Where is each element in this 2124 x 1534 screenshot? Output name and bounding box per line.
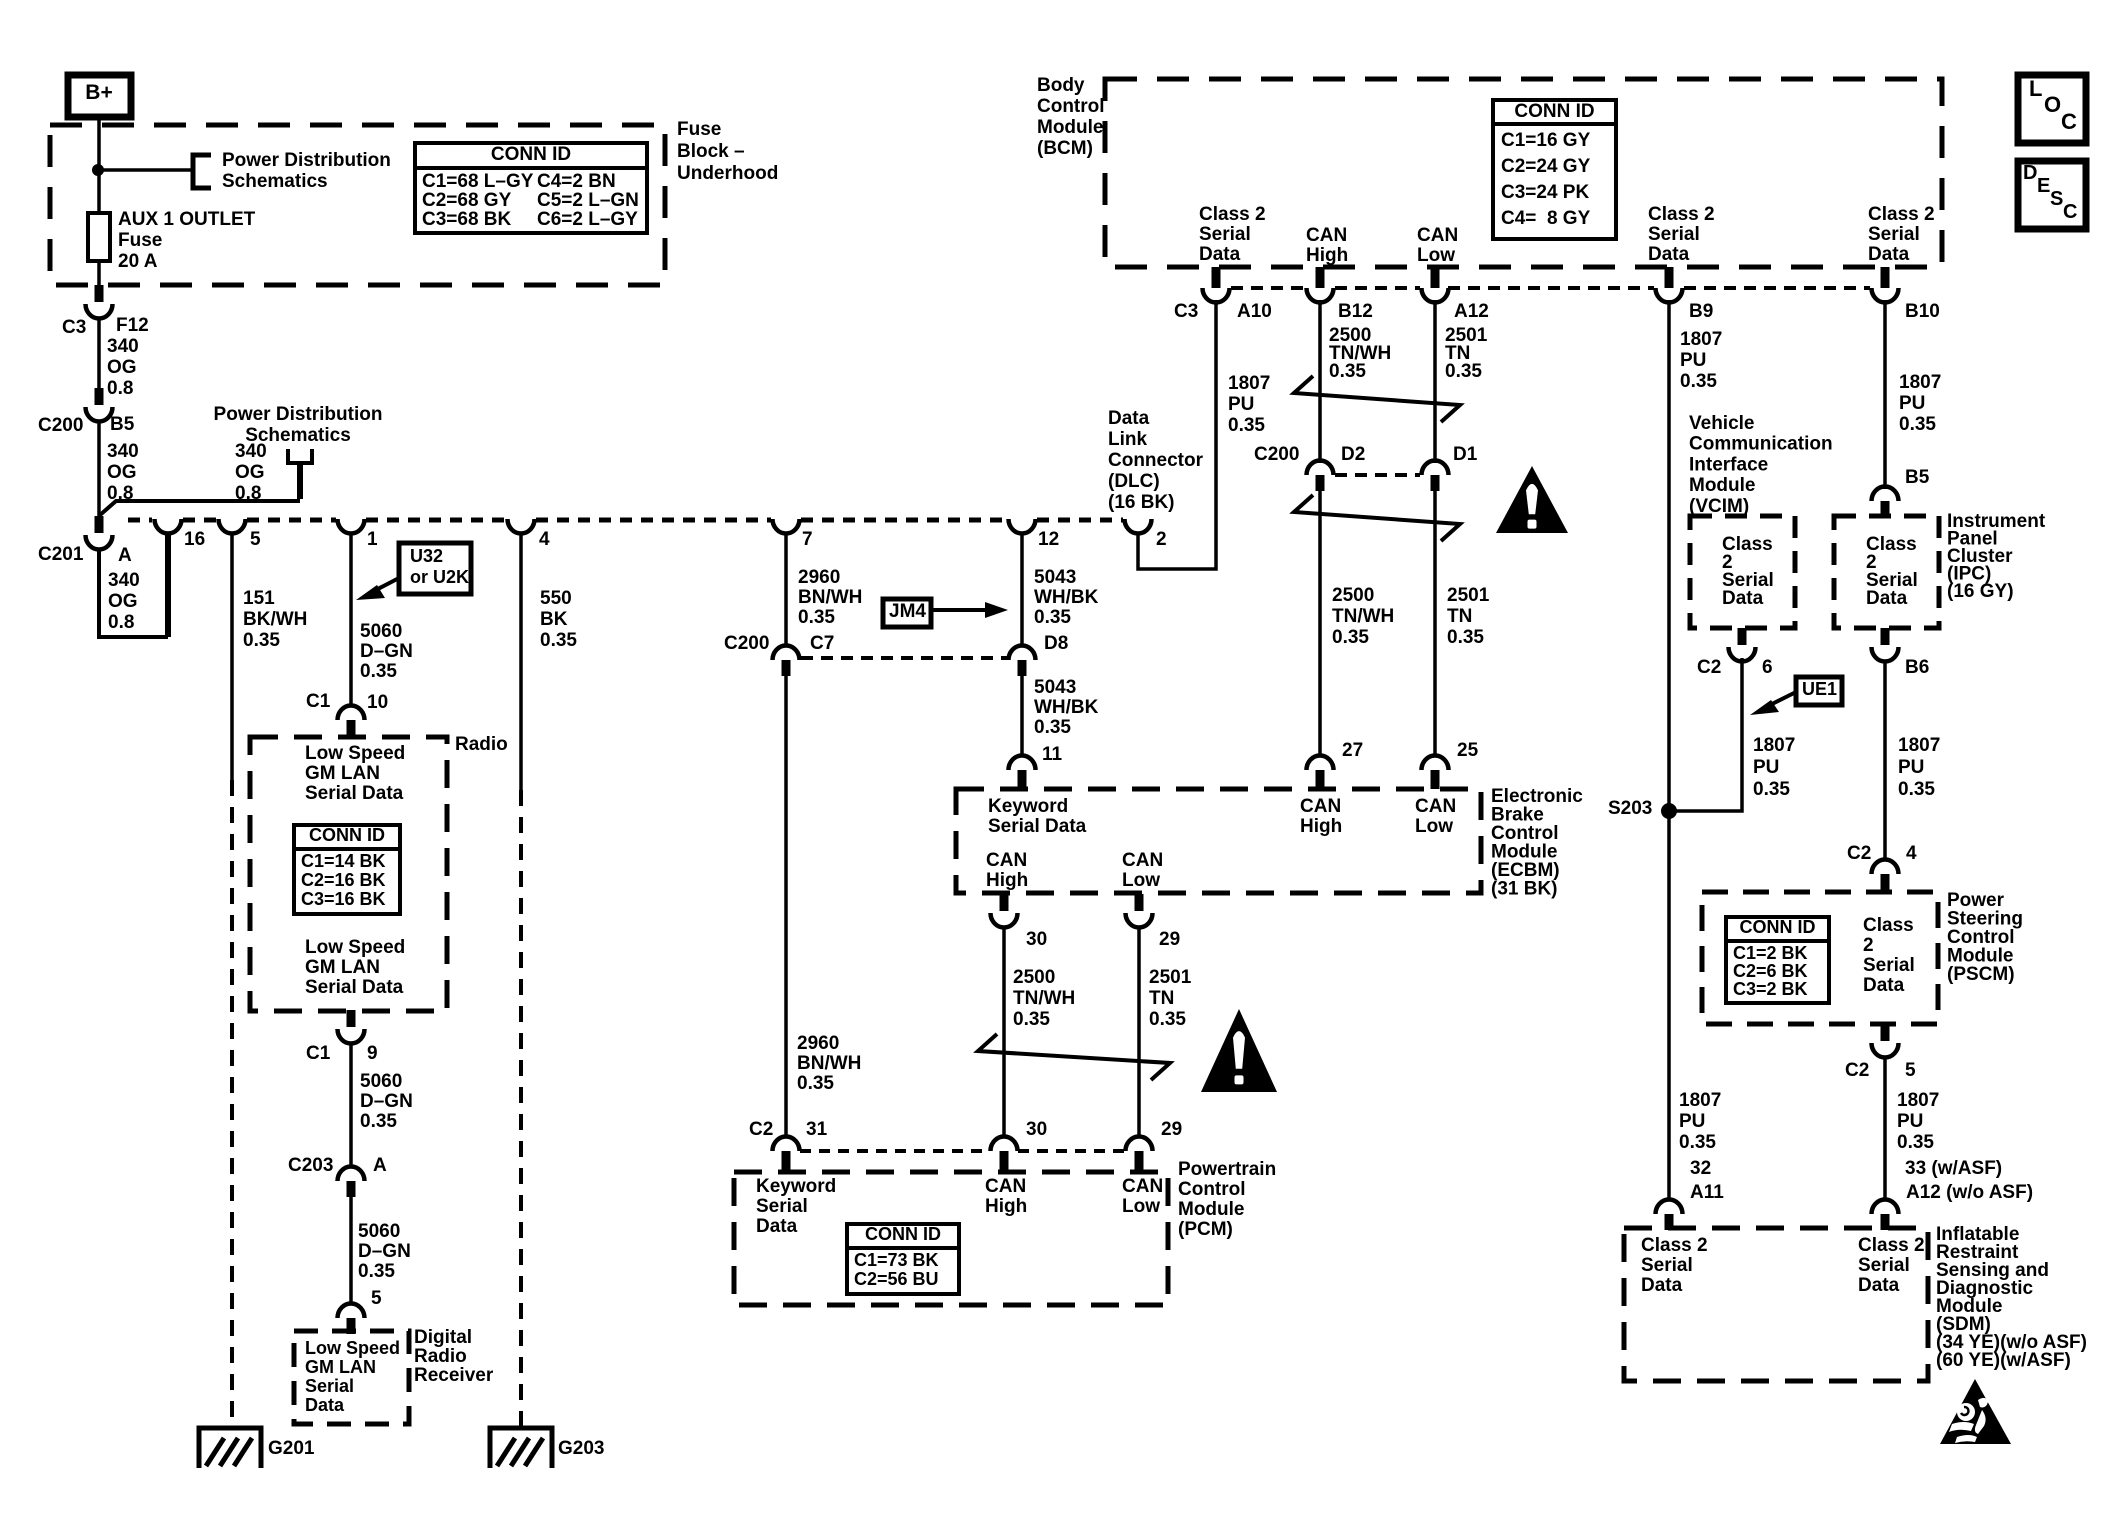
svg-text:D8: D8: [1044, 633, 1068, 654]
junction node on B+ feed: [92, 164, 104, 176]
CONN ID table BCM: [1493, 100, 1616, 239]
svg-text:C1=16 GY: C1=16 GY: [1501, 130, 1591, 151]
svg-text:B5: B5: [1905, 467, 1930, 488]
power steering control module dashed box: [1702, 892, 1938, 1024]
svg-text:5: 5: [250, 529, 261, 550]
svg-text:5: 5: [371, 1288, 382, 1309]
svg-text:CANLow: CANLow: [1417, 225, 1458, 266]
svg-text:B6: B6: [1905, 657, 1929, 678]
twisted pair marker (PCM wires): [978, 1034, 1170, 1080]
DLC pin 1 cup: [338, 519, 365, 534]
svg-text:C200: C200: [724, 633, 769, 654]
radio dashed box: [250, 737, 447, 1011]
svg-text:C1: C1: [306, 691, 331, 712]
svg-text:A12: A12: [1454, 301, 1489, 322]
svg-text:A11: A11: [1690, 1182, 1724, 1203]
callout box UE1: [1796, 677, 1842, 705]
ground G201: [199, 1428, 261, 1468]
wire 340 OG 0.8 segment C3-C200: [97, 317, 101, 390]
DLC pin 2 cup: [1125, 519, 1152, 534]
connector pin 29 into PCM: [1126, 1137, 1153, 1173]
airbag warning triangle: [1940, 1379, 2011, 1444]
svg-text:C200: C200: [38, 415, 83, 436]
svg-text:CANHigh: CANHigh: [986, 850, 1028, 891]
svg-text:2: 2: [1156, 529, 1167, 550]
svg-text:CONN ID: CONN ID: [491, 144, 571, 165]
svg-text:JM4: JM4: [889, 601, 926, 622]
svg-text:S203: S203: [1608, 798, 1652, 819]
svg-text:C203: C203: [288, 1155, 333, 1176]
svg-text:30: 30: [1026, 929, 1047, 950]
svg-text:29: 29: [1159, 929, 1180, 950]
svg-text:12: 12: [1038, 529, 1059, 550]
svg-text:C6=2 L–GY: C6=2 L–GY: [537, 209, 638, 230]
connector pin 32/A11 into SDM: [1656, 1200, 1683, 1231]
svg-text:G201: G201: [268, 1438, 315, 1459]
connector C200 pin B5: [86, 388, 113, 421]
BCM connector pin B10: [1872, 267, 1899, 303]
DLC pin 16 cup: [155, 519, 182, 534]
svg-text:6: 6: [1762, 657, 1773, 678]
callout box U32 or U2K: [399, 543, 471, 594]
svg-text:L: L: [2029, 76, 2042, 101]
BCM connector pin B9: [1656, 267, 1683, 303]
body control module dashed box: [1105, 79, 1942, 267]
svg-text:B10: B10: [1905, 301, 1940, 322]
connector C2 pin 31 into PCM: [773, 1137, 800, 1173]
twisted pair marker (upper CAN): [1294, 376, 1460, 422]
svg-text:5: 5: [1905, 1060, 1916, 1081]
BCM connector pin A10: [1203, 267, 1230, 303]
LOC reference box: [2018, 75, 2086, 143]
wire 5043 WH/BK 0.35 D8 to ECBM: [1020, 676, 1024, 757]
dashed connector line C7 to D8: [801, 656, 1007, 660]
svg-text:C3=2 BK: C3=2 BK: [1733, 979, 1808, 999]
svg-text:C4= 8 GY: C4= 8 GY: [1501, 208, 1591, 229]
svg-text:10: 10: [367, 692, 388, 713]
svg-text:C2: C2: [749, 1119, 773, 1140]
off-page bracket Power Distribution Schematics: [193, 155, 211, 188]
svg-text:CANHigh: CANHigh: [985, 1176, 1027, 1217]
DLC pin 12 cup: [1009, 519, 1036, 534]
twisted pair marker (lower CAN): [1294, 495, 1460, 541]
DLC pin 5 cup: [219, 519, 246, 534]
svg-text:O: O: [2044, 92, 2061, 117]
BCM bottom connector dashed line: [1231, 286, 1305, 290]
svg-text:C2=56 BU: C2=56 BU: [854, 1269, 939, 1289]
wire 2501 TN 0.35 D1 to ECBM 25: [1433, 491, 1437, 757]
svg-text:A: A: [373, 1155, 387, 1176]
wire 2960 BN/WH 0.35 C200 to PCM: [784, 676, 788, 1137]
CONN ID table PCM: [847, 1224, 959, 1294]
svg-text:C2=24 GY: C2=24 GY: [1501, 156, 1591, 177]
warning triangle (CAN): [1496, 466, 1568, 533]
svg-text:29: 29: [1161, 1119, 1182, 1140]
svg-text:C2=68 GY: C2=68 GY: [422, 190, 512, 211]
svg-text:A: A: [118, 545, 132, 566]
stem from bracket: [297, 463, 303, 499]
wire 2960 BN/WH 0.35 DLC7 to C200: [784, 532, 788, 646]
thick riser to DLC pin 16: [165, 532, 171, 637]
wire 2500 TN/WH 0.35 BCM B12 to D2: [1318, 300, 1322, 463]
ground G203: [490, 1428, 552, 1468]
CONN ID table PSCM: [1726, 917, 1829, 1003]
BCM connector pin A12: [1422, 267, 1449, 303]
svg-text:CANLow: CANLow: [1415, 796, 1456, 837]
arrow from U32 box to wire: [356, 578, 399, 600]
svg-text:CANHigh: CANHigh: [1306, 225, 1348, 266]
DLC pin 7 cup: [773, 519, 800, 534]
svg-text:7: 7: [802, 529, 813, 550]
wire 1807 PU 0.35 BCM A10 to DLC 2: [1138, 300, 1216, 569]
svg-text:UE1: UE1: [1802, 679, 1837, 699]
svg-text:C200: C200: [1254, 444, 1299, 465]
wire fuse to C3: [97, 261, 101, 287]
fuse AUX 1 OUTLET 20 A: [88, 213, 110, 261]
svg-text:C2: C2: [1847, 843, 1871, 864]
connector pin 30 out of ECBM: [991, 894, 1018, 928]
wire 550 continuation dashed to G203: [519, 790, 523, 1428]
wire 2500 TN/WH 0.35 ECBM to PCM: [1002, 926, 1006, 1137]
connector pin 30 into PCM: [991, 1137, 1018, 1173]
svg-text:D2: D2: [1341, 444, 1365, 465]
wire 340 OG 0.8 segment C200-C201: [97, 420, 101, 517]
arrow from UE1 to wire: [1750, 692, 1796, 715]
wire B10 to B5 IPC: [1883, 300, 1887, 489]
wire 5060 D-GN 0.35 C203 to receiver: [349, 1197, 353, 1305]
connector pin 33/A12 into SDM: [1872, 1200, 1899, 1231]
svg-text:C201: C201: [38, 544, 84, 565]
connector C3 pin F12: [86, 285, 113, 318]
svg-text:31: 31: [806, 1119, 828, 1140]
svg-text:C3=24 PK: C3=24 PK: [1501, 182, 1589, 203]
wire 151 BK/WH 0.35 (solid part): [230, 532, 234, 780]
DLC pin 4 cup: [508, 519, 535, 534]
wire 1807 PU 0.35 B6 to C2-4: [1883, 660, 1887, 861]
svg-text:27: 27: [1342, 740, 1363, 761]
connector pin 11 into ECBM: [1009, 756, 1036, 790]
svg-text:C1=73 BK: C1=73 BK: [854, 1250, 939, 1270]
svg-text:C2=6 BK: C2=6 BK: [1733, 961, 1808, 981]
svg-text:B9: B9: [1689, 301, 1713, 322]
svg-text:C2: C2: [1697, 657, 1721, 678]
digital radio receiver dashed box: [294, 1331, 409, 1424]
wire 151 continuation dashed to G201: [230, 780, 234, 1428]
CONN ID table radio: [294, 825, 400, 914]
wire 5060 D-GN 0.35 radio to C203: [349, 1043, 353, 1167]
wire 550 BK 0.35 (solid part): [519, 532, 523, 790]
VCIM class 2 serial data dashed box: [1690, 516, 1795, 628]
connector pin 5 into digital radio receiver: [338, 1304, 365, 1335]
svg-text:D: D: [2023, 162, 2037, 184]
svg-text:S: S: [2050, 188, 2063, 210]
svg-text:1: 1: [367, 529, 378, 550]
svg-text:CONN ID: CONN ID: [1514, 101, 1594, 122]
wire 5043 WH/BK 0.35 DLC12 to D8: [1020, 532, 1024, 646]
fuse block - underhood dashed box: [50, 125, 665, 285]
warning triangle (PCM): [1201, 1009, 1277, 1092]
PCM top connector line dashed: [800, 1149, 990, 1153]
svg-text:C2: C2: [1845, 1060, 1869, 1081]
connector pin 27 into ECBM: [1307, 756, 1334, 790]
svg-text:11: 11: [1042, 744, 1063, 765]
connector C200 pin D1: [1422, 461, 1449, 492]
connector C200 pin D8: [1009, 646, 1036, 677]
CONN ID table fuse block underhood: [415, 143, 647, 233]
connector C2 pin 5 out of PSCM: [1872, 1024, 1899, 1058]
wire 2500 TN/WH 0.35 D2 to ECBM 27: [1318, 491, 1322, 757]
svg-text:G203: G203: [558, 1438, 604, 1459]
callout box JM4: [883, 599, 931, 627]
svg-text:C1=2 BK: C1=2 BK: [1733, 943, 1808, 963]
svg-text:CONN ID: CONN ID: [1740, 917, 1816, 937]
svg-text:C3=16 BK: C3=16 BK: [301, 889, 386, 909]
svg-text:9: 9: [367, 1043, 378, 1064]
B+ battery feed symbol: [68, 75, 131, 117]
svg-text:C3: C3: [62, 317, 86, 338]
wire C201 to splice pack loop: [99, 548, 168, 637]
svg-text:B12: B12: [1338, 301, 1373, 322]
svg-text:F12: F12: [116, 315, 149, 336]
wire 5060 D-GN 0.35 DLC1 to radio: [349, 532, 353, 707]
svg-text:C1=68 L–GY: C1=68 L–GY: [422, 171, 534, 192]
wire 1807 PU 0.35 B9 to SDM (Class 2 serial data): [1667, 300, 1671, 1201]
svg-text:A10: A10: [1237, 301, 1272, 322]
BCM connector pin B12: [1307, 267, 1334, 303]
wire 2501 TN 0.35 ECBM to PCM: [1137, 926, 1141, 1137]
IPC class 2 serial data dashed box: [1834, 516, 1939, 628]
svg-text:CONN ID: CONN ID: [865, 1224, 941, 1244]
svg-text:C1: C1: [306, 1043, 331, 1064]
wire B+ to fuse: [97, 117, 101, 213]
svg-text:C: C: [2063, 201, 2077, 223]
svg-text:25: 25: [1457, 740, 1479, 761]
connector C2 pin 6 out of VCIM: [1729, 628, 1756, 662]
svg-text:30: 30: [1026, 1119, 1047, 1140]
svg-text:4: 4: [1906, 843, 1917, 864]
svg-text:C3=68 BK: C3=68 BK: [422, 209, 512, 230]
svg-text:CANLow: CANLow: [1122, 1176, 1163, 1217]
powertrain control module dashed box: [734, 1172, 1168, 1305]
off-page bracket for branch 340 OG: [288, 449, 312, 463]
connector B6 out of IPC: [1872, 628, 1899, 662]
branch wire to C201 wire: [100, 501, 300, 515]
svg-text:A12 (w/o ASF): A12 (w/o ASF): [1906, 1182, 2033, 1203]
svg-text:B+: B+: [85, 81, 112, 104]
connector C200 pin C7: [773, 646, 800, 677]
svg-text:16: 16: [184, 529, 205, 550]
connector C1 pin 10 into radio: [338, 706, 365, 737]
wire 1807 PU 0.35 PSCM to SDM: [1883, 1056, 1887, 1201]
svg-text:33 (w/ASF): 33 (w/ASF): [1905, 1158, 2002, 1179]
connector pin 25 into ECBM: [1422, 756, 1449, 790]
svg-text:CANHigh: CANHigh: [1300, 796, 1342, 837]
svg-text:E: E: [2037, 175, 2050, 197]
svg-text:C: C: [2061, 109, 2077, 134]
arrow from JM4 to wire 12: [931, 602, 1008, 618]
dashed connector line D2 to D1: [1335, 473, 1420, 477]
electronic brake control module dashed box: [956, 789, 1481, 893]
connector B5 into IPC: [1872, 487, 1899, 518]
connector C1 pin 9 out of radio: [338, 1010, 365, 1044]
DESC reference box: [2018, 161, 2086, 229]
connector pin 29 out of ECBM: [1126, 894, 1153, 928]
svg-text:32: 32: [1690, 1158, 1711, 1179]
svg-text:CANLow: CANLow: [1122, 850, 1163, 891]
svg-text:C2=16 BK: C2=16 BK: [301, 870, 386, 890]
svg-text:C4=2 BN: C4=2 BN: [537, 171, 616, 192]
connector C203 pin A: [338, 1167, 365, 1198]
svg-text:C7: C7: [810, 633, 834, 654]
svg-text:CONN ID: CONN ID: [309, 825, 385, 845]
branch wire S203 to VCIM C2-6: [1669, 658, 1742, 811]
wire 2501 TN 0.35 BCM A12 to D1: [1433, 300, 1437, 463]
svg-text:C5=2 L–GN: C5=2 L–GN: [537, 190, 639, 211]
wire branch to Power Distribution Schematics: [98, 168, 191, 172]
svg-text:C1=14 BK: C1=14 BK: [301, 851, 386, 871]
svg-text:C3: C3: [1174, 301, 1198, 322]
svg-text:4: 4: [539, 529, 550, 550]
svg-text:D1: D1: [1453, 444, 1478, 465]
splice S203: [1661, 803, 1677, 819]
svg-text:Radio: Radio: [455, 734, 508, 755]
DLC bus dashed line (16 BK): [128, 518, 152, 523]
inflatable restraint SDM dashed box: [1624, 1228, 1928, 1381]
connector C2 pin 4 into PSCM: [1872, 860, 1899, 893]
svg-text:B5: B5: [110, 414, 135, 435]
connector C201 pin A: [86, 516, 113, 549]
connector C200 pin D2: [1307, 461, 1334, 492]
